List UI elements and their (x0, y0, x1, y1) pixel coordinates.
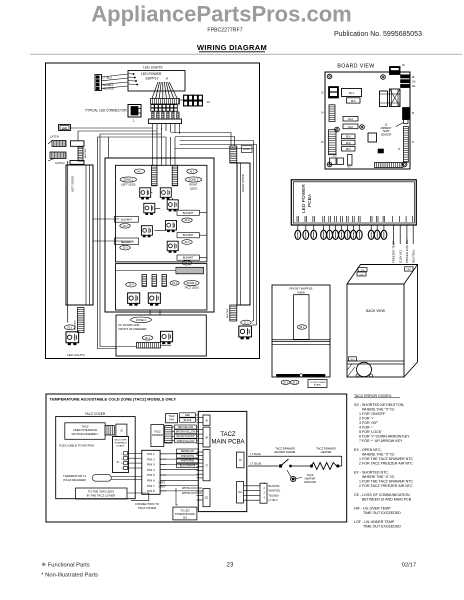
svg-text:TACZ USER: TACZ USER (114, 438, 127, 441)
svg-text:PCBA: PCBA (307, 193, 313, 207)
svg-text:FF/RC: FF/RC (243, 148, 250, 151)
svg-text:FAN: FAN (169, 419, 174, 422)
svg-text:GREY: GREY (159, 482, 166, 485)
svg-text:3 FOR ‘O/F’: 3 FOR ‘O/F’ (359, 421, 378, 425)
svg-text:LEFT LEDS: LEFT LEDS (121, 182, 135, 186)
svg-text:BLK/WHT: BLK/WHT (183, 257, 194, 260)
svg-text:BLK/WHT: BLK/WHT (183, 234, 194, 237)
svg-text:RL2: RL2 (348, 125, 353, 129)
svg-text:RED/BLACK: RED/BLACK (181, 450, 194, 453)
svg-text:M 1: M 1 (137, 169, 142, 173)
svg-text:RIGHT: RIGHT (189, 182, 198, 186)
svg-text:WHITE/PINK: WHITE/PINK (181, 461, 195, 463)
svg-text:FPBC2277RF7: FPBC2277RF7 (207, 28, 242, 34)
svg-text:4 FOR ‘-’: 4 FOR ‘-’ (359, 426, 374, 430)
svg-text:WHITE/YELLOW: WHITE/YELLOW (177, 441, 195, 443)
svg-text:LEDS: LEDS (190, 187, 197, 191)
svg-text:BLACK/WHITE: BLACK/WHITE (180, 465, 196, 468)
svg-text:LED: LED (359, 274, 364, 276)
svg-text:LED POWER: LED POWER (301, 184, 307, 213)
svg-text:RED/YELLOW: RED/YELLOW (178, 427, 194, 429)
svg-text:PIN 3: PIN 3 (147, 463, 155, 467)
svg-text:20.3: 20.3 (184, 218, 190, 222)
svg-text:TIME OUT EXCEEDED: TIME OUT EXCEEDED (363, 525, 401, 529)
svg-text:LEFT DOOR: LEFT DOOR (71, 176, 75, 192)
svg-text:24.1: 24.1 (299, 325, 305, 329)
svg-text:TACZ: TACZ (220, 432, 236, 438)
svg-text:R17: R17 (347, 167, 352, 169)
svg-text:BOARD: BOARD (314, 384, 322, 387)
svg-text:ZONE 4: ZONE 4 (136, 318, 147, 322)
svg-text:CATCH: CATCH (55, 161, 64, 165)
svg-text:✳ Functional Parts: ✳ Functional Parts (41, 562, 89, 569)
svg-text:23: 23 (227, 562, 234, 569)
svg-text:* Non-Illustrated Parts: * Non-Illustrated Parts (41, 573, 98, 579)
svg-text:TACZ COVER: TACZ COVER (85, 412, 106, 416)
svg-text:IN THE TACZ COVER: IN THE TACZ COVER (87, 493, 116, 497)
svg-text:BETWEEN UI AND MAIN PCB: BETWEEN UI AND MAIN PCB (362, 498, 412, 502)
svg-text:20.4: 20.4 (128, 283, 134, 287)
svg-text:BLK/PNK: BLK/PNK (269, 484, 280, 488)
svg-text:BOARD VIEW: BOARD VIEW (337, 64, 374, 70)
svg-text:TEMPERATURE ADJUSTABLE COLD ZO: TEMPERATURE ADJUSTABLE COLD ZONE (TACZ) … (50, 397, 177, 402)
svg-text:J10: J10 (412, 81, 417, 84)
svg-text:1 FOR THE TACZ DRAWER NTC: 1 FOR THE TACZ DRAWER NTC (359, 457, 413, 461)
svg-text:2 FOR TACZ FREEZER AIR NTC: 2 FOR TACZ FREEZER AIR NTC (359, 484, 413, 488)
svg-text:TIME OUT EXCEEDED: TIME OUT EXCEEDED (363, 511, 401, 515)
svg-text:HEATER THERM.: HEATER THERM. (274, 450, 296, 454)
svg-text:BLK/WHT: BLK/WHT (183, 212, 194, 215)
svg-text:MAIN PCBA: MAIN PCBA (211, 439, 244, 445)
svg-text:1 FOR ‘ON/OFF’: 1 FOR ‘ON/OFF’ (359, 412, 386, 416)
svg-text:TACZ ERROR CODES:: TACZ ERROR CODES: (354, 394, 392, 398)
svg-text:YEL/BLK: YEL/BLK (269, 493, 280, 497)
svg-text:BLACK: BLACK (184, 419, 192, 422)
svg-text:PIN 2: PIN 2 (147, 457, 155, 461)
svg-text:FRONT OF FREEZER: FRONT OF FREEZER (119, 327, 147, 331)
svg-text:LT BLUE: LT BLUE (251, 452, 262, 456)
svg-text:FF DOORS AND: FF DOORS AND (119, 323, 140, 327)
svg-text:LT. BLUE: LT. BLUE (251, 462, 262, 466)
svg-text:TO LED: TO LED (180, 509, 189, 513)
svg-text:20.3: 20.3 (122, 246, 128, 250)
svg-text:CE - LOSS OF COMMUNICATION: CE - LOSS OF COMMUNICATION (354, 493, 410, 497)
svg-text:RED: RED (185, 414, 190, 417)
svg-text:TACZ DRAWER: TACZ DRAWER (316, 446, 335, 450)
svg-text:TO LED POWER: TO LED POWER (310, 382, 326, 384)
svg-text:(TACZ DRAWER): (TACZ DRAWER) (63, 478, 86, 482)
svg-text:LED LIGHTS: LED LIGHTS (67, 353, 85, 357)
svg-text:2 FOR ‘+’: 2 FOR ‘+’ (359, 417, 374, 421)
svg-text:25.1: 25.1 (283, 380, 289, 384)
svg-text:BROWN/YELLOW: BROWN/YELLOW (176, 432, 196, 434)
svg-text:20.1: 20.1 (67, 325, 73, 329)
svg-text:21.2: 21.2 (243, 321, 249, 325)
svg-text:WHITE: WHITE (182, 487, 190, 490)
svg-text:25.1: 25.1 (292, 380, 298, 384)
svg-text:EX - SHORTED NTC,: EX - SHORTED NTC, (354, 471, 389, 475)
svg-text:J10: J10 (183, 515, 188, 519)
svg-text:HEATER: HEATER (305, 477, 316, 481)
svg-text:PIN 5: PIN 5 (147, 473, 155, 477)
svg-text:J2: J2 (207, 100, 211, 104)
svg-text:26.1: 26.1 (145, 336, 151, 340)
svg-text:TACZ DRAWER: TACZ DRAWER (275, 446, 294, 450)
svg-text:KEYPAD ASSEMBLY: KEYPAD ASSEMBLY (72, 432, 99, 436)
svg-text:BLK/ORG: BLK/ORG (85, 148, 87, 158)
svg-text:WHERE THE “X” IS:: WHERE THE “X” IS: (362, 408, 395, 412)
svg-text:BLACK/YELLOW: BLACK/YELLOW (177, 435, 196, 438)
svg-text:HEATER: HEATER (321, 450, 332, 454)
svg-text:6 FOR ‘V’ DOWN ARROW KEY: 6 FOR ‘V’ DOWN ARROW KEY (359, 435, 410, 439)
svg-text:RIGHT DOOR: RIGHT DOOR (241, 174, 245, 192)
svg-text:RL4: RL4 (348, 117, 353, 121)
svg-text:ZONE 2: ZONE 2 (189, 178, 199, 182)
svg-text:PINK/WHITE: PINK/WHITE (181, 456, 195, 458)
svg-text:RL8: RL8 (346, 141, 351, 145)
svg-text:BOARD: BOARD (117, 444, 125, 447)
svg-text:LOF - UIL UNDER TEMP: LOF - UIL UNDER TEMP (354, 520, 395, 524)
svg-text:PIN 4: PIN 4 (147, 468, 155, 472)
svg-text:ZONE 1: ZONE 1 (123, 178, 133, 182)
svg-text:WIRING DIAGRAM: WIRING DIAGRAM (197, 43, 267, 52)
svg-text:7 FOR ‘^’ UP ARROW KEY: 7 FOR ‘^’ UP ARROW KEY (359, 439, 403, 443)
svg-text:RL1: RL1 (349, 91, 355, 95)
svg-text:LED LIGHTS: LED LIGHTS (143, 65, 163, 69)
svg-text:BLK/WHT: BLK/WHT (121, 242, 132, 244)
svg-text:1 FOR THE TACZ DRAWER NTC: 1 FOR THE TACZ DRAWER NTC (359, 480, 413, 484)
svg-text:GREY: GREY (159, 486, 166, 489)
svg-text:PIN 7: PIN 7 (147, 484, 155, 488)
svg-text:20.4: 20.4 (184, 240, 190, 244)
svg-text:LATCH: LATCH (50, 135, 59, 139)
svg-text:LED: LED (62, 126, 67, 130)
svg-text:EX - OPEN NTC,: EX - OPEN NTC, (354, 448, 382, 452)
svg-text:POWER 110V ON: POWER 110V ON (405, 240, 409, 263)
svg-text:TYPICAL LED CONNECTOR: TYPICAL LED CONNECTOR (85, 109, 127, 113)
svg-text:HIF - UIL OVER TEMP: HIF - UIL OVER TEMP (354, 507, 391, 511)
svg-text:TACZ: TACZ (154, 431, 161, 434)
svg-text:Publication No. 5995685053: Publication No. 5995685053 (334, 31, 422, 38)
svg-text:RL6: RL6 (346, 135, 351, 139)
svg-text:(110V AC): (110V AC) (398, 250, 402, 263)
svg-text:TACZ COVER: TACZ COVER (138, 506, 156, 510)
svg-text:WHERE THE “X” IS:: WHERE THE “X” IS: (362, 453, 395, 457)
svg-text:LED: LED (407, 269, 412, 271)
svg-text:PIN 1: PIN 1 (147, 452, 155, 456)
svg-text:PIN 8: PIN 8 (147, 489, 155, 493)
svg-text:LT. BLU: LT. BLU (269, 498, 278, 502)
svg-text:BACK VIEW: BACK VIEW (366, 309, 386, 313)
svg-text:RL5: RL5 (351, 99, 356, 103)
svg-text:20.2: 20.2 (122, 224, 128, 228)
svg-text:POWER BOARD: POWER BOARD (175, 512, 195, 516)
svg-text:AppliancePartsPros.com: AppliancePartsPros.com (91, 2, 351, 27)
svg-text:ZONE 3: ZONE 3 (187, 281, 197, 285)
svg-text:GROUND: GROUND (304, 480, 316, 484)
svg-text:M 2: M 2 (190, 169, 195, 173)
svg-text:J11: J11 (205, 496, 210, 500)
svg-text:WHERE THE “X” IS:: WHERE THE “X” IS: (362, 475, 395, 479)
svg-text:SUPPLY: SUPPLY (146, 76, 160, 80)
svg-text:WHITE: WHITE (182, 492, 190, 495)
svg-text:2 FOR TACZ FREEZER AIR NTC: 2 FOR TACZ FREEZER AIR NTC (359, 462, 413, 466)
svg-text:RL3: RL3 (346, 147, 351, 151)
svg-text:FREEZER TEMP: FREEZER TEMP (392, 241, 396, 263)
svg-text:SENSOR: SENSOR (381, 133, 392, 136)
svg-text:SX - SHORTED KEY/BUTTON,: SX - SHORTED KEY/BUTTON, (354, 403, 404, 407)
svg-text:FLEX CABLE TO KEYPAD: FLEX CABLE TO KEYPAD (59, 443, 94, 447)
svg-text:WHH/YEL: WHH/YEL (269, 489, 281, 493)
svg-text:TACZ LEDS: TACZ LEDS (184, 286, 199, 290)
svg-text:5 FOR ‘LOCK’: 5 FOR ‘LOCK’ (359, 430, 382, 434)
svg-text:J11: J11 (412, 85, 416, 88)
svg-text:PIN 6: PIN 6 (147, 479, 155, 483)
svg-text:BLK/ORG: BLK/ORG (227, 308, 229, 318)
svg-text:VIEW: VIEW (297, 290, 305, 294)
svg-text:02/17: 02/17 (402, 563, 417, 569)
svg-text:21.1: 21.1 (184, 261, 190, 265)
svg-text:NEUTRAL: NEUTRAL (411, 249, 415, 263)
svg-text:DAMPER: DAMPER (152, 434, 163, 437)
svg-text:BLK/WHT: BLK/WHT (121, 218, 132, 221)
svg-text:TACZ: TACZ (307, 473, 314, 477)
svg-text:21.1: 21.1 (172, 281, 178, 285)
svg-text:INTERFACE: INTERFACE (114, 441, 127, 444)
